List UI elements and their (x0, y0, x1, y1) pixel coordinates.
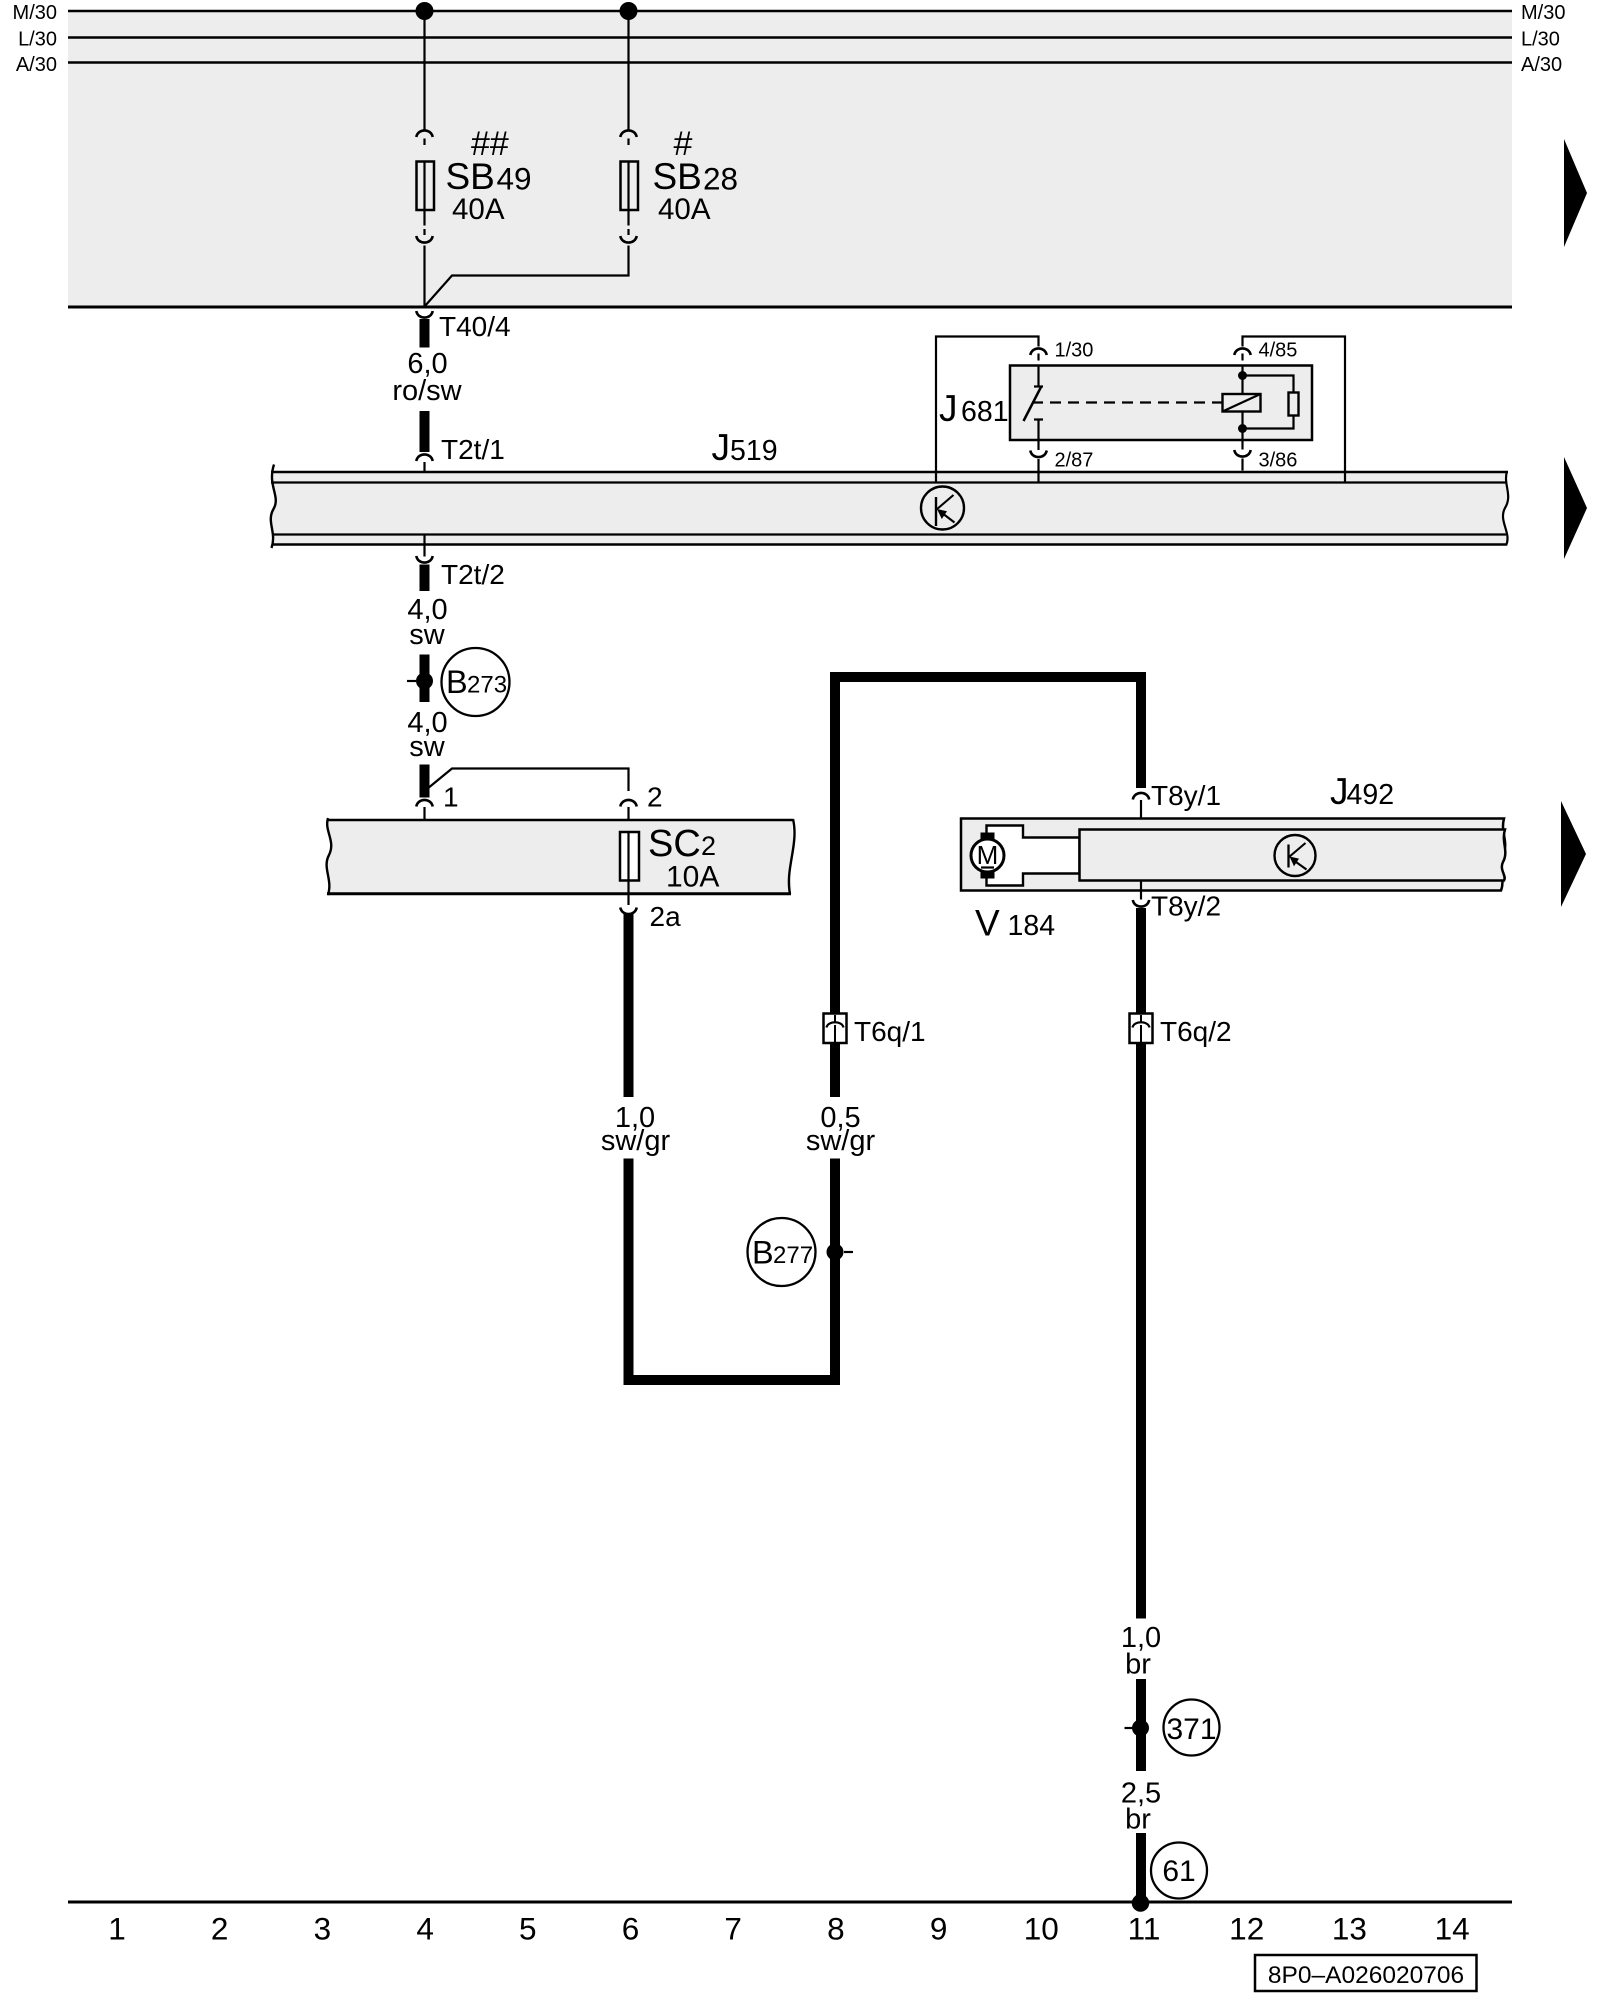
svg-text:3/86: 3/86 (1259, 450, 1298, 472)
wire 2,5 br to ground (1136, 1833, 1146, 1900)
pin line into J519 (423, 462, 425, 484)
svg-text:sw/gr: sw/gr (601, 1125, 671, 1157)
relay switch blade (1024, 387, 1042, 421)
J519 band right break edge (1503, 471, 1508, 546)
wire 4,0 sw middle segment (420, 655, 430, 703)
wire below fuse SB49 (423, 210, 425, 226)
svg-text:B: B (752, 1235, 774, 1271)
branch wire to fuse SC2 pin 2 (427, 769, 629, 792)
relay branch junction dots (1238, 371, 1247, 380)
pin line out of J519 (T2t/2) (423, 535, 425, 557)
wire 1,0 sw/gr from 2a down (624, 914, 634, 1098)
svg-text:8P0–A026020706: 8P0–A026020706 (1268, 1962, 1464, 1989)
svg-text:277: 277 (773, 1242, 813, 1269)
svg-text:10A: 10A (666, 861, 719, 894)
motor M circle (971, 839, 1004, 872)
relay pin 2/87 (1037, 440, 1039, 450)
wire 4,0 sw upper segment (420, 565, 430, 592)
svg-text:11: 11 (1128, 1911, 1161, 1947)
connector arc pin 1/30 (1030, 348, 1046, 355)
connector T8y/1 (1133, 793, 1149, 800)
fuse SC2 (620, 832, 639, 881)
relay J681 box (1010, 366, 1312, 441)
motor plug white shape (987, 826, 1080, 886)
connector arc below SB49 (416, 236, 432, 243)
svg-text:L/30: L/30 (18, 29, 57, 51)
svg-text:13: 13 (1332, 1911, 1367, 1947)
J519 band left break edge (271, 465, 276, 549)
svg-text:br: br (1125, 1649, 1151, 1681)
svg-text:T2t/2: T2t/2 (441, 559, 505, 590)
junction dot on M/30 track 6 (620, 2, 638, 20)
connector T40/4 (416, 311, 432, 318)
ground dot on bottom rail (1132, 1894, 1150, 1912)
continuation arrow middle (J519) (1564, 457, 1587, 559)
connector pin 1 (SC panel) (416, 800, 432, 807)
svg-text:T8y/2: T8y/2 (1151, 891, 1221, 922)
svg-text:273: 273 (467, 672, 507, 699)
svg-text:4/85: 4/85 (1259, 340, 1298, 362)
control unit J492 inner band (1080, 830, 1506, 881)
svg-text:371: 371 (1166, 1713, 1216, 1746)
svg-text:1: 1 (108, 1911, 126, 1947)
wire SB28 down and left to junction (425, 246, 629, 307)
relay parallel resistor branch (1243, 376, 1294, 393)
splice B277 dot (827, 1244, 844, 1261)
connector pin above SB49 (423, 139, 425, 146)
J519 band top outer border (271, 471, 1508, 474)
svg-text:40A: 40A (658, 193, 711, 226)
svg-text:T8y/1: T8y/1 (1151, 780, 1221, 811)
svg-text:SB: SB (653, 156, 702, 197)
J519 band bottom outer border (272, 543, 1506, 546)
svg-text:sw: sw (409, 619, 446, 651)
svg-text:J: J (712, 427, 731, 468)
connector T8y/2 (1133, 900, 1149, 907)
svg-text:14: 14 (1435, 1911, 1470, 1947)
splice B273 dot (416, 673, 433, 690)
svg-text:2: 2 (647, 782, 663, 813)
motor brush block top (981, 833, 995, 841)
control-unit symbol circle in J492 (1275, 835, 1316, 876)
motor brush block bottom (981, 871, 995, 879)
connector T2t/1 (416, 454, 432, 461)
svg-text:2: 2 (211, 1911, 229, 1947)
svg-text:SB: SB (446, 156, 495, 197)
svg-text:sw/gr: sw/gr (806, 1125, 876, 1157)
wire U-loop bottom (629, 1159, 836, 1381)
SC band right break edge (789, 819, 795, 894)
wire J519 to relay pin 1/30 (936, 337, 1039, 484)
svg-text:L/30: L/30 (1521, 29, 1560, 51)
bus line M/30 (68, 10, 1512, 13)
svg-text:T40/4: T40/4 (439, 311, 511, 342)
continuation arrow lower (J492) (1561, 801, 1586, 907)
svg-text:10: 10 (1024, 1911, 1059, 1947)
svg-text:B: B (446, 664, 468, 700)
splice B277 circle (748, 1218, 816, 1286)
svg-text:T6q/2: T6q/2 (1160, 1016, 1232, 1047)
splice 371 circle (1164, 1700, 1220, 1756)
power supply band 30 (fuse box area) (68, 11, 1512, 308)
connector pin 2 (SC panel) (620, 800, 636, 807)
svg-text:T2t/1: T2t/1 (441, 434, 505, 465)
motor assembly V184 outer box (961, 819, 1505, 891)
pin 2a line (627, 881, 629, 906)
svg-text:ro/sw: ro/sw (392, 375, 462, 407)
svg-text:519: 519 (730, 435, 778, 467)
wire 1,0 br long segment (1136, 1043, 1146, 1619)
bus line L/30 (68, 36, 1512, 39)
splice B277 tick (844, 1251, 853, 1253)
svg-text:2a: 2a (650, 901, 682, 932)
J519 band bottom inner border (272, 533, 1506, 535)
relay actuation dashed line (1032, 401, 1222, 403)
svg-text:2/87: 2/87 (1055, 450, 1094, 472)
svg-text:T6q/1: T6q/1 (854, 1016, 926, 1047)
connector pin below SB49 (423, 229, 425, 235)
diagram code box (1255, 1955, 1477, 1991)
wire segment through splice 371 (1136, 1679, 1146, 1771)
wire up and over to T8y/1 (835, 677, 1141, 1014)
fuse panel SC band (327, 819, 795, 894)
svg-text:6: 6 (622, 1911, 640, 1947)
svg-text:3: 3 (314, 1911, 332, 1947)
connector arc above SB28 (620, 130, 636, 137)
connector 2a (620, 908, 636, 915)
band 30 bottom border (68, 306, 1512, 309)
relay coil upper lead (1241, 366, 1243, 395)
svg-text:sw: sw (409, 731, 446, 763)
SC band top border (327, 819, 793, 822)
control-unit symbol circle in J519 (921, 487, 964, 530)
wire 4,0 sw lower segment (420, 765, 430, 798)
wire 6,0 ro/sw upper segment (420, 319, 430, 348)
relay resistor (1289, 393, 1299, 416)
svg-text:5: 5 (519, 1911, 537, 1947)
svg-text:1: 1 (443, 782, 459, 813)
svg-text:681: 681 (961, 396, 1009, 428)
connector arc below SB28 (620, 236, 636, 243)
svg-text:M/30: M/30 (1521, 2, 1565, 24)
svg-text:7: 7 (724, 1911, 742, 1947)
svg-text:M: M (977, 840, 999, 870)
wire from M/30 to fuse SB49 (423, 11, 425, 130)
splice 371 tick (1125, 1727, 1134, 1729)
svg-text:184: 184 (1008, 910, 1056, 942)
wire J519 to relay pin 4/85 (1243, 337, 1346, 484)
connector arc pin 4/85 (1234, 348, 1250, 355)
svg-text:M/30: M/30 (13, 2, 57, 24)
svg-text:SC: SC (648, 823, 701, 865)
svg-text:8: 8 (827, 1911, 845, 1947)
svg-text:12: 12 (1229, 1911, 1264, 1947)
svg-text:28: 28 (703, 161, 738, 197)
inline connector T6q/2 (1130, 1014, 1153, 1044)
SC band left break edge (327, 818, 332, 895)
control unit J519 band (271, 471, 1509, 546)
connector pin above SB28 (627, 139, 629, 146)
svg-text:49: 49 (497, 161, 532, 197)
pin line T8y/2 (1140, 881, 1142, 900)
J519 band top inner border (271, 481, 1507, 483)
svg-text:1/30: 1/30 (1055, 340, 1094, 362)
wire 6,0 ro/sw lower segment (420, 411, 430, 452)
fuse SB49 (417, 162, 435, 211)
svg-text:br: br (1125, 1804, 1151, 1836)
svg-text:J: J (939, 388, 958, 429)
inline connector T6q/1 (824, 1014, 847, 1044)
wire below fuse SB28 (627, 210, 629, 226)
relay switch contact upper (1037, 366, 1039, 387)
svg-text:40A: 40A (452, 193, 505, 226)
relay coil (1223, 394, 1261, 412)
bottom ground rail (68, 1901, 1512, 1904)
connector arc above SB49 (416, 130, 432, 137)
svg-text:A/30: A/30 (16, 54, 57, 76)
ground point 61 circle (1151, 1843, 1207, 1899)
relay pin 3/86 (1241, 440, 1243, 450)
bus line A/30 (68, 61, 1512, 64)
connector pin below SB28 (627, 229, 629, 235)
svg-text:V: V (975, 903, 1000, 944)
junction dot on M/30 track 4 (416, 2, 434, 20)
wire 0,5 sw/gr upper segment (830, 1043, 840, 1097)
svg-text:A/30: A/30 (1521, 54, 1562, 76)
connector T2t/2 (416, 556, 432, 563)
wire SB49 to band bottom (423, 246, 425, 308)
splice B273 circle (442, 648, 510, 716)
wire T8y/2 down to T6q/2 (1136, 908, 1146, 1014)
svg-text:492: 492 (1347, 779, 1395, 811)
splice 371 dot (1132, 1720, 1149, 1737)
relay coil lower lead (1241, 412, 1243, 441)
relay switch contact lower (1034, 418, 1043, 420)
fuse SB28 (621, 162, 639, 211)
wire from M/30 to fuse SB28 (627, 11, 629, 130)
SC band bottom border (327, 892, 791, 895)
svg-text:2: 2 (701, 831, 716, 861)
svg-text:61: 61 (1162, 1855, 1195, 1888)
splice B273 tick (407, 680, 416, 682)
continuation arrow top (band 30) (1564, 139, 1587, 247)
svg-text:9: 9 (930, 1911, 948, 1947)
svg-text:4: 4 (416, 1911, 434, 1947)
